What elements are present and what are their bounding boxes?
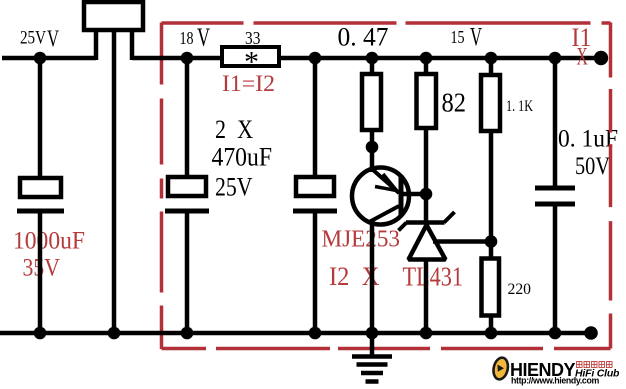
wire bottom rail	[0, 331, 592, 336]
transformer block T1	[84, 2, 143, 60]
node bottom rail at C3	[309, 327, 322, 340]
ground symbol	[352, 335, 392, 382]
node bottom rail at C4	[549, 327, 562, 340]
resistor R1 33	[222, 47, 279, 66]
shunt regulator U1 TL431	[399, 212, 455, 333]
svg-text:220: 220	[508, 281, 532, 298]
svg-text:V: V	[197, 23, 210, 52]
capacitor C4 0.1uF 50V	[535, 58, 575, 333]
node bottom rail at center stem	[108, 327, 121, 340]
node top rail at C3	[309, 52, 322, 65]
node output terminal top	[594, 51, 608, 65]
capacitor C2 470uF 25V	[165, 58, 209, 333]
svg-text:http://www.hiendy.com: http://www.hiendy.com	[511, 376, 599, 386]
capacitor C1 1000uF 35V	[17, 58, 64, 333]
node emitter junction	[366, 141, 379, 154]
svg-text:470uF: 470uF	[212, 143, 273, 172]
resistor R5 220	[482, 241, 500, 333]
resistor R3 82	[417, 58, 437, 223]
node top rail at R4	[485, 52, 498, 65]
wire center tap stem	[112, 30, 117, 333]
svg-text:2 X: 2 X	[215, 115, 253, 144]
svg-text:50V: 50V	[575, 153, 610, 180]
svg-text:25V: 25V	[215, 173, 253, 202]
node bottom rail at U1	[420, 327, 433, 340]
node output terminal bottom	[584, 326, 598, 340]
resistor R4 1.1K	[481, 58, 500, 243]
node bottom rail at R5	[485, 327, 498, 340]
svg-text:15: 15	[451, 27, 465, 47]
node top rail at R3	[420, 52, 433, 65]
wire top rail left segment	[2, 56, 96, 61]
svg-text:25V: 25V	[20, 28, 46, 49]
svg-text:MJE253: MJE253	[322, 227, 401, 253]
svg-text:82: 82	[442, 88, 467, 118]
svg-text:V: V	[47, 27, 59, 53]
node top rail at C1	[34, 52, 47, 65]
svg-text:0. 47: 0. 47	[338, 23, 389, 52]
node bottom rail at C1	[34, 327, 47, 340]
wire top rail right segment	[132, 56, 602, 61]
node base junction	[420, 188, 433, 201]
svg-text:I1=I2: I1=I2	[222, 71, 275, 96]
node top rail at C2	[181, 52, 194, 65]
svg-text:TL431: TL431	[403, 262, 464, 292]
resistor R2 0.47	[362, 58, 381, 150]
svg-text:V: V	[470, 23, 482, 52]
svg-text:1000uF: 1000uF	[13, 228, 85, 255]
wire ref line	[433, 239, 491, 244]
node bottom rail at C2	[181, 327, 194, 340]
logo HIENDY HiFi Club	[492, 356, 620, 385]
wire base to junction	[401, 192, 426, 197]
node bottom rail at Q1	[366, 327, 379, 340]
svg-text:1. 1K: 1. 1K	[506, 98, 533, 115]
node top rail at R2	[366, 52, 379, 65]
node top rail at C4	[549, 52, 562, 65]
capacitor C3 470uF 25V	[293, 58, 337, 333]
red dashed boundary box	[162, 23, 611, 350]
node ref junction	[485, 235, 498, 248]
svg-text:18: 18	[180, 28, 194, 48]
svg-text:X: X	[577, 44, 588, 71]
transistor Q1 MJE253	[352, 147, 409, 333]
